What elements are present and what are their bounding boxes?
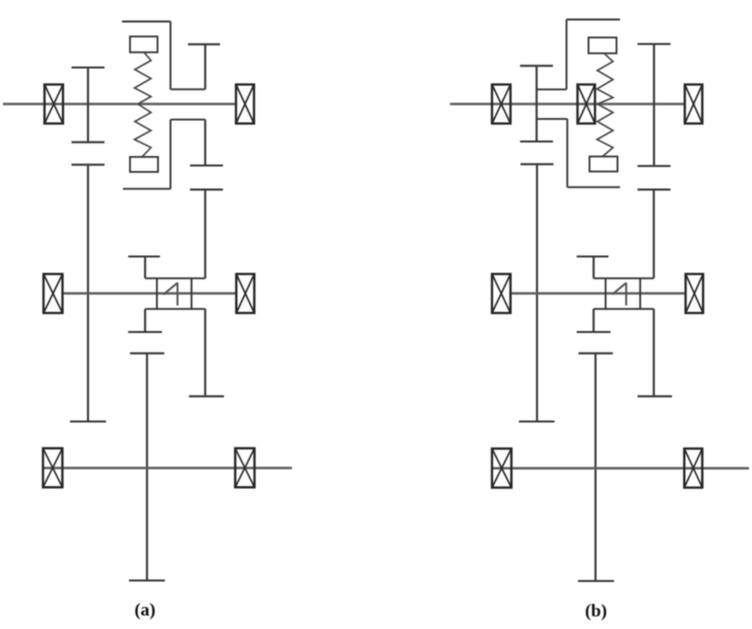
clutch housing lower vertical (a) — [170, 120, 172, 189]
clutch hub upper arm (a) — [171, 88, 206, 90]
pinion above coupling box (b) — [577, 257, 609, 279]
coupling box right side (b) — [639, 278, 641, 309]
clutch housing bottom arm (b) — [567, 186, 620, 188]
clutch gear upper half (a) — [188, 44, 220, 89]
shaft III (output shaft, diagram b) — [492, 467, 749, 470]
loose gear wheel on shaft I (b) — [638, 44, 671, 166]
bearing left on shaft III (a) — [43, 448, 62, 487]
clutch gear lower half (a) — [190, 120, 223, 166]
gear wheel on shaft II right (a) — [189, 190, 224, 397]
bearing right on shaft I (a) — [236, 85, 254, 124]
pinion below coupling box (b) — [577, 309, 611, 332]
bearing left on shaft III (b) — [492, 449, 511, 488]
spring seat upper (b) — [589, 38, 617, 54]
svg-text:(a): (a) — [135, 600, 156, 621]
coupling box right side (a) — [191, 278, 193, 309]
shaft I (input shaft, diagram a) — [3, 103, 236, 106]
gear z2 wheel on shaft II left (b) — [519, 164, 555, 421]
bearing right on shaft III (b) — [684, 449, 702, 488]
gear wheel on shaft III (b) — [578, 353, 614, 581]
pressure spring lower (a) — [135, 104, 152, 157]
gear wheel on shaft II right (b) — [638, 190, 673, 397]
pinion above coupling box (a) — [128, 257, 160, 279]
shaft III (output shaft, diagram a) — [43, 467, 293, 470]
pressure spring upper (a) — [135, 52, 152, 104]
bearing right on shaft I (b) — [685, 85, 703, 124]
bearing right on shaft II (b) — [686, 274, 704, 313]
clutch housing top arm (b) — [567, 19, 621, 21]
clutch housing bottom arm (a) — [123, 188, 171, 190]
pressure spring lower (b) — [597, 104, 613, 157]
gear z1 on shaft I (a) — [72, 68, 105, 143]
bearing middle on shaft I (b) — [578, 85, 596, 124]
bearing left on shaft II (a) — [44, 274, 63, 313]
clutch housing top arm (a) — [122, 21, 171, 23]
coupling box bottom line (a) — [145, 308, 205, 310]
bearing left on shaft I (b) — [492, 85, 511, 124]
gear z2 wheel on shaft II left (a) — [70, 165, 106, 422]
numeral 4 inside box (b) — [612, 283, 626, 306]
numeral 4 inside box (a) — [164, 283, 178, 306]
coupling box left side (a) — [156, 278, 158, 309]
shaft II (intermediate shaft, diagram b) — [511, 292, 686, 295]
clutch housing upper vertical (a) — [170, 22, 172, 90]
coupling box bottom line (b) — [594, 308, 654, 310]
pinion below coupling box (a) — [128, 309, 162, 332]
bearing right on shaft III (a) — [235, 448, 254, 487]
spring seat lower (b) — [590, 157, 618, 172]
spring seat lower (a) — [130, 157, 158, 172]
coupling box top line (b) — [594, 277, 654, 279]
gear wheel on shaft III (a) — [129, 353, 165, 580]
spring seat upper (a) — [130, 37, 158, 53]
clutch housing upper vertical (b) — [566, 20, 568, 90]
pressure spring upper (b) — [597, 53, 613, 104]
gear z1 on shaft I (b) — [520, 66, 553, 142]
shaft II (intermediate shaft, diagram a) — [63, 292, 237, 295]
coupling box left side (b) — [605, 278, 607, 309]
bearing left on shaft II (b) — [492, 274, 511, 313]
shaft I (input shaft, diagram b) — [450, 103, 685, 106]
coupling box top line (a) — [145, 277, 205, 279]
svg-text:(b): (b) — [585, 601, 607, 622]
clutch hub lower arm (b) — [537, 118, 567, 120]
clutch hub upper arm (b) — [537, 88, 567, 90]
bearing left on shaft I (a) — [45, 85, 64, 124]
clutch housing lower vertical (b) — [566, 119, 568, 187]
clutch hub lower arm (a) — [171, 119, 206, 121]
bearing right on shaft II (a) — [236, 274, 254, 313]
